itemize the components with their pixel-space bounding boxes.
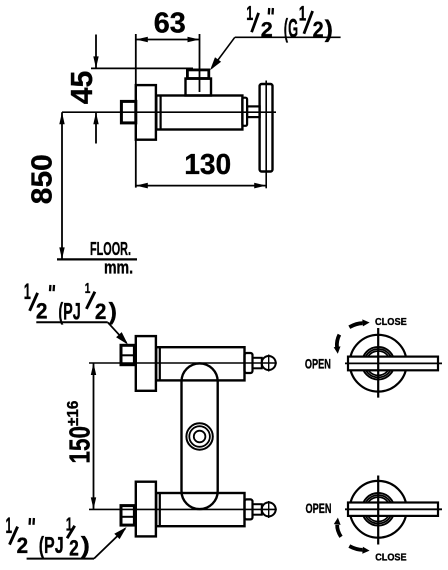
svg-text:130: 130 (184, 149, 231, 181)
svg-text:63: 63 (154, 7, 186, 39)
svg-text:1: 1 (85, 281, 91, 297)
svg-text:1: 1 (299, 2, 307, 25)
svg-text:CLOSE: CLOSE (375, 316, 407, 328)
svg-text:OPEN: OPEN (305, 356, 331, 371)
svg-text:mm.: mm. (104, 257, 133, 277)
svg-text:1: 1 (24, 279, 31, 304)
svg-text:2: 2 (17, 533, 29, 558)
svg-text:(G: (G (284, 15, 298, 43)
svg-text:1: 1 (246, 3, 253, 25)
svg-text:1: 1 (6, 513, 13, 538)
svg-text:): ) (325, 16, 333, 43)
svg-text:2: 2 (95, 299, 107, 324)
svg-text:(PJ: (PJ (39, 532, 64, 558)
svg-text:45: 45 (64, 71, 99, 105)
svg-text:FLOOR.: FLOOR. (90, 239, 131, 259)
svg-text:±16: ±16 (65, 400, 82, 426)
svg-text:850: 850 (27, 154, 59, 204)
svg-text:OPEN: OPEN (306, 501, 332, 516)
svg-text:2: 2 (313, 17, 324, 42)
svg-text:CLOSE: CLOSE (375, 551, 406, 563)
svg-text:2: 2 (69, 536, 79, 561)
svg-text:): ) (109, 299, 117, 326)
svg-text:): ) (81, 532, 90, 558)
svg-text:2: 2 (36, 298, 48, 323)
svg-text:150: 150 (65, 426, 97, 464)
